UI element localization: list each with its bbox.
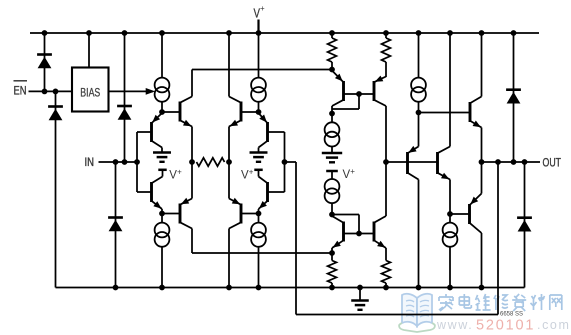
- wire Q9 collector to rail: [481, 33, 483, 97]
- wire Q2 emitter to resistor node: [191, 127, 193, 163]
- wire Q4 emitter to resistor node: [228, 127, 230, 163]
- wire R5 leads: [385, 248, 387, 288]
- ground cell2: [250, 153, 268, 162]
- svg-text:6658 SS: 6658 SS: [500, 311, 524, 318]
- wire Q1b emitter stub: [161, 209, 163, 214]
- wire IN input: [99, 161, 138, 163]
- current source I1: [155, 78, 170, 102]
- wire I4 stubs: [258, 214, 260, 288]
- diode D6: [517, 218, 532, 232]
- wire Q10 Q11 base tie: [332, 215, 374, 234]
- current source I6 middle lower: [325, 179, 340, 203]
- diode D2: [48, 107, 63, 121]
- wire CS1 to node: [161, 102, 163, 112]
- watermark book icon: [399, 294, 435, 332]
- wire tap2 stem: [258, 170, 260, 177]
- diode D1: [37, 55, 52, 69]
- current source I7 driver: [411, 78, 426, 102]
- svg-text:.com: .com: [537, 318, 571, 332]
- svg-text:BIAS: BIAS: [80, 87, 100, 99]
- wire Q5 collector to I5: [331, 106, 333, 114]
- wire I6 stub: [331, 203, 333, 214]
- EN label: [14, 80, 28, 82]
- ground bottom rail: [351, 301, 369, 310]
- resistor R3: [382, 38, 391, 62]
- wire ground stub bottom: [359, 288, 361, 301]
- wire tap1 stem: [162, 170, 164, 177]
- wire R3 leads: [385, 33, 387, 77]
- diode D3: [108, 218, 123, 232]
- diode D3 line IN to V-: [115, 162, 117, 288]
- svg-text:520101: 520101: [476, 318, 535, 334]
- wire EN input: [29, 90, 73, 92]
- svg-text:V: V: [241, 170, 249, 182]
- wire cell2 tap to feedback: [285, 161, 297, 163]
- wire Q6 collector down: [385, 106, 387, 162]
- wire R4 leads: [331, 253, 333, 288]
- resistor R1: [197, 158, 225, 166]
- diode D4 line IN to V+: [124, 33, 126, 162]
- resistor R5: [382, 261, 391, 284]
- current source I2 lower cell1: [155, 223, 170, 247]
- wire Q3b emitter stub: [258, 209, 260, 214]
- node IN junctions: [113, 159, 119, 165]
- wire I8 stubs: [449, 214, 451, 288]
- wire I5 stubs: [331, 114, 333, 154]
- V+ tap cell2: [241, 168, 263, 182]
- node EN junctions: [42, 89, 48, 95]
- current source I8 output: [443, 223, 458, 247]
- current source I3: [251, 78, 266, 102]
- wire Q7 emitter vertical: [418, 113, 420, 147]
- wire Q1 collector stub to ground: [161, 148, 163, 153]
- transistor Q1b npn lower follower: [137, 177, 163, 210]
- svg-text:www.: www.: [436, 318, 473, 332]
- transistor Q12 pnp output: [450, 194, 482, 234]
- wire Q4b collector to rail: [228, 229, 230, 288]
- current source I5 middle: [325, 122, 340, 146]
- transistor Q4b pnp: [229, 198, 259, 229]
- wire BIAS feed from rail: [88, 33, 90, 68]
- svg-text:EN: EN: [14, 84, 27, 98]
- wire Q2b collector route to mirror node: [192, 229, 332, 254]
- wire CS2 to node: [258, 102, 260, 112]
- wire CS2 feed: [258, 33, 260, 78]
- V+ supply tick: [257, 20, 259, 34]
- wire Q11 collector up: [385, 162, 387, 216]
- wire feedback base vertical cell2: [284, 132, 286, 192]
- wire Q8 collector to rail: [449, 33, 451, 147]
- transistor Q3b npn lower follower: [259, 177, 285, 210]
- transistor Q11 npn mirror: [374, 216, 386, 248]
- diode D6 line OUT to V-: [524, 162, 526, 288]
- transistor Q3 pnp feedback follower: [259, 113, 285, 148]
- diode D5 line V+ to OUT: [513, 33, 515, 162]
- svg-text:IN: IN: [85, 157, 95, 169]
- svg-text:V: V: [343, 169, 351, 181]
- wire Q8 emitter down: [449, 180, 451, 215]
- wire Q12 collector to rail: [481, 233, 483, 288]
- transistor Q1 pnp input follower: [137, 113, 162, 148]
- V+ top rail: [30, 32, 539, 34]
- wire driver base: [386, 161, 438, 163]
- diode D5: [506, 90, 521, 104]
- transistor Q9 npn output: [470, 97, 482, 128]
- wire Q5 Q6 base tie: [332, 94, 374, 109]
- wire Q4b emitter vertical: [228, 162, 230, 199]
- wire Q9 emitter to OUT: [481, 128, 483, 163]
- V+ tap middle: [326, 167, 355, 181]
- svg-text:OUT: OUT: [543, 158, 562, 170]
- transistor Q2b pnp: [162, 198, 192, 229]
- ground cell1: [153, 153, 171, 162]
- wire Q10 emitter to R4: [331, 248, 333, 253]
- transistor Q6 pnp mirror: [374, 76, 386, 106]
- current source I4 lower cell2: [251, 223, 266, 247]
- wire R2 leads: [331, 33, 333, 70]
- svg-text:V: V: [169, 170, 177, 182]
- wire Q7 collector to rail: [418, 180, 420, 288]
- BIAS block U1: [72, 68, 109, 112]
- OUT line: [482, 161, 541, 163]
- wire input base vertical cell1: [136, 132, 138, 192]
- svg-text:+: +: [260, 4, 265, 13]
- wire CS1 feed: [161, 33, 163, 78]
- resistor R4: [328, 261, 337, 284]
- wire tap3 stem: [331, 171, 333, 179]
- transistor Q10 npn mirror: [332, 216, 344, 248]
- V- bottom rail: [56, 91, 525, 287]
- wire Q4 collector to rail: [228, 33, 230, 97]
- transistor Q2 npn: [162, 97, 192, 127]
- wire Q2b emitter vertical: [191, 162, 193, 199]
- svg-text:+: +: [177, 168, 182, 177]
- wire Q2 collector to mirror input: [192, 70, 332, 97]
- wire BIAS output with arrow: [109, 90, 154, 92]
- wire Q9 base: [419, 112, 471, 114]
- wire CS5 feed: [418, 33, 420, 78]
- wire feedback lower route: [296, 162, 498, 315]
- node R1 terminals: [189, 159, 195, 165]
- ground middle: [322, 153, 342, 162]
- wire Q12 emitter to OUT: [481, 162, 483, 194]
- transistor Q5 pnp mirror: [332, 71, 344, 107]
- svg-text:+: +: [350, 167, 355, 176]
- transistor Q7 pnp driver: [408, 146, 419, 180]
- resistor R2: [328, 38, 337, 62]
- wire Q3 collector stub: [258, 148, 260, 153]
- svg-text:+: +: [249, 168, 254, 177]
- transistor Q4 npn: [229, 97, 259, 127]
- wire I2 stubs: [161, 214, 163, 288]
- watermark chinese text: [439, 294, 562, 311]
- transistor Q8 npn driver: [438, 147, 451, 180]
- wire I7 stub: [418, 102, 420, 113]
- V+ tap cell1: [158, 168, 182, 182]
- diode D1 line EN to V+: [44, 33, 46, 91]
- diode D4: [117, 106, 132, 120]
